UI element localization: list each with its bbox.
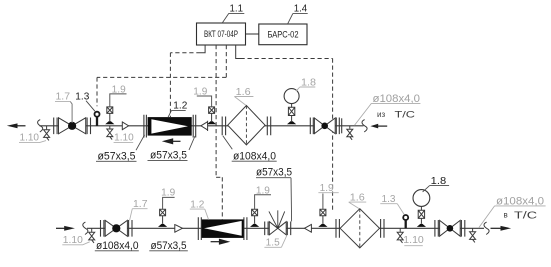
cable C to top temp sensor (dashed): [97, 45, 226, 106]
label ø57x3,5 (bottom left): [149, 240, 188, 252]
label ø108x4,0 (under top strainer): [223, 136, 277, 163]
label 1.6 (bottom): [349, 192, 367, 208]
label 1.8 (top): [296, 77, 316, 91]
reducer (bottom, before strainer): [305, 224, 312, 233]
ball valve (bottom right): [435, 220, 465, 237]
control valve 1.5 (bottom): [265, 210, 291, 235]
vent valve 1.9 a (top): [105, 107, 114, 124]
drain valve 1.10 (bottom middle): [397, 228, 403, 243]
top pipe break symbol (left): [38, 120, 43, 132]
bottom pipe break symbol (right): [484, 222, 489, 234]
svg-text:1.4: 1.4: [294, 3, 308, 14]
svg-text:1.10: 1.10: [20, 132, 40, 143]
wire between boxes: [246, 33, 259, 35]
controller box U1.1 ВКТ 07-04Р: [197, 23, 246, 45]
svg-text:ø57х3,5: ø57х3,5: [151, 240, 187, 252]
vent valve 1.9 (bottom a): [158, 209, 167, 227]
bottom pipe inlet arrow (left): [56, 226, 75, 231]
vent valve 1.9 (bottom c): [318, 209, 327, 227]
ball valve 1.7 (bottom left): [101, 220, 133, 237]
temp sensor 1.3 (top): [95, 112, 100, 126]
temp sensor 1.3 (bottom): [403, 215, 408, 228]
flow meter 1.2 (bottom): [198, 217, 247, 240]
label 1.9 a (top): [110, 85, 127, 107]
drain valve (top right): [347, 126, 353, 140]
vent valve 1.9 b (top): [207, 107, 216, 124]
pipe end flange (top right): [341, 118, 343, 133]
top pipe (supply): [40, 125, 364, 127]
label 1.6 (top): [234, 87, 253, 105]
label 1.2 (bottom): [190, 199, 209, 219]
cable B to bottom flowmeter (dashed): [216, 45, 222, 220]
drain valve 1.10 (bottom left): [89, 228, 95, 243]
svg-text:1.10: 1.10: [403, 235, 424, 246]
svg-text:Т/С: Т/С: [514, 211, 537, 222]
label 1.3 (bottom): [380, 194, 404, 215]
label 1.7 (top): [55, 92, 72, 123]
drain valve (bottom right): [470, 228, 476, 242]
svg-text:ø108х4,0: ø108х4,0: [96, 240, 139, 252]
label 1.10 (bottom middle): [403, 235, 424, 246]
label 1.4: [288, 3, 308, 24]
svg-text:ø57х3,5: ø57х3,5: [98, 150, 136, 162]
svg-text:ø57х3,5: ø57х3,5: [150, 150, 187, 162]
top pipe exit arrow left: [7, 123, 26, 128]
bottom pipe break symbol (left): [83, 222, 88, 234]
label ø108x4,0 (bottom right, grey): [479, 195, 546, 228]
label ø57x3,5 (under top meter): [148, 136, 196, 162]
pressure gauge 1.8 (top): [284, 89, 299, 125]
flow meter 1.2 (top): [144, 115, 196, 138]
label 1.2 (top): [168, 100, 188, 117]
svg-text:ВКТ 07-04Р: ВКТ 07-04Р: [204, 29, 238, 40]
svg-text:БАРС-02: БАРС-02: [268, 29, 299, 40]
label 1.10 (top far left): [19, 132, 46, 143]
svg-text:1.1: 1.1: [230, 3, 244, 14]
bottom pipe (return): [87, 227, 484, 229]
flow arrow under bottom meter: [211, 239, 231, 245]
svg-text:ø108х4,0: ø108х4,0: [233, 150, 276, 162]
label 1.5 (bottom): [264, 236, 286, 249]
reducer (top, after meter): [201, 121, 208, 131]
svg-text:1.2: 1.2: [173, 100, 187, 111]
pressure gauge 1.8 (bottom): [413, 190, 430, 227]
label 1.3 (top): [75, 92, 95, 112]
vent valve 1.9 (bottom b): [250, 209, 259, 227]
label 1.1: [222, 3, 244, 23]
strainer 1.6 (bottom): [336, 209, 384, 248]
drain valve 1.10 (top far left): [44, 126, 50, 141]
label 1.10 (bottom left): [62, 235, 89, 246]
check valve (bottom left): [175, 224, 183, 233]
check valve (top left): [122, 121, 128, 130]
svg-text:в: в: [504, 211, 508, 220]
label ø108x4,0 (bottom left): [95, 240, 139, 252]
label ø108x4,0 (top right, grey): [354, 93, 420, 125]
svg-text:ø57х3,5: ø57х3,5: [256, 167, 292, 179]
svg-text:Т/С: Т/С: [395, 110, 416, 121]
box U1.4 БАРС-02: [259, 24, 307, 45]
label 1.10 b (top): [114, 133, 135, 144]
svg-text:1.10: 1.10: [114, 133, 134, 144]
ball valve (top right): [310, 118, 339, 135]
svg-text:1.3: 1.3: [75, 92, 89, 103]
text в Т/С: [504, 211, 538, 222]
label 1.9 (bottom a): [161, 188, 175, 210]
text из Т/С: [377, 110, 415, 121]
label 1.8 (bottom): [423, 176, 450, 192]
label 1.9 (bottom c): [318, 183, 338, 209]
label ø57x3,5 (top left): [96, 135, 145, 163]
drain valve 1.10 b (top, below 1.9a): [107, 126, 113, 140]
flow arrow under top meter: [162, 138, 181, 144]
label 1.7 (bottom): [130, 199, 148, 220]
top pipe inlet arrow: [370, 124, 387, 129]
top pipe break symbol (right): [362, 120, 367, 132]
ball valve 1.7 (top left): [54, 118, 91, 135]
svg-text:1.10: 1.10: [63, 235, 83, 246]
cable A to top flowmeter (dashed): [170, 45, 205, 117]
svg-text:1.7: 1.7: [56, 92, 71, 103]
label ø57x3,5 (between pipes): [256, 167, 292, 222]
cable D to bottom sensor (dashed): [236, 45, 333, 211]
strainer 1.6 (top): [222, 106, 271, 145]
svg-text:из: из: [377, 110, 385, 119]
label 1.9 (bottom b): [255, 186, 271, 210]
bottom pipe outlet arrow: [491, 226, 512, 231]
label 1.9 b (top): [193, 87, 211, 107]
